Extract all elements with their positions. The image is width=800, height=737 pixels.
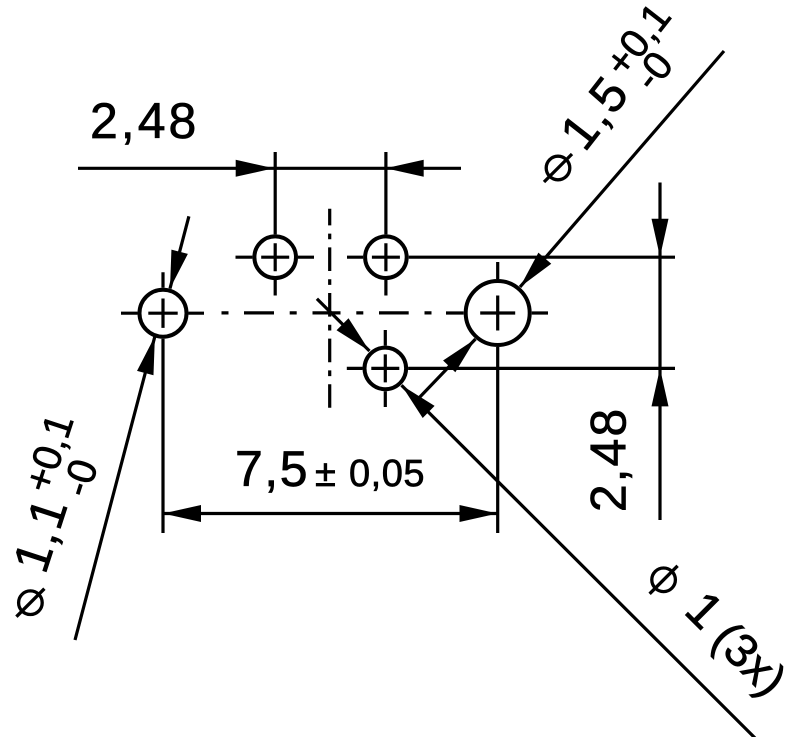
arrowhead dia 1 long	[396, 379, 435, 418]
svg-text:0,05: 0,05	[349, 453, 425, 495]
hole C3 center cross	[372, 243, 400, 271]
hole C2 circle	[254, 236, 296, 278]
svg-text:2,48: 2,48	[90, 93, 199, 149]
svg-text:±: ±	[315, 453, 336, 495]
arrowhead dia 1 short	[337, 318, 376, 357]
hole C1 ticks	[121, 272, 204, 533]
arrowhead 7,5 right	[460, 505, 498, 522]
arrowhead dia 1,5 upper	[514, 253, 552, 293]
svg-text:2,48: 2,48	[581, 407, 637, 512]
leader dia 1,5 lower	[417, 339, 476, 400]
hole C4 center cross	[371, 354, 399, 382]
leader dia 1 long	[402, 385, 756, 737]
hole C4 circle	[365, 348, 407, 390]
dia symbol of 1,5	[544, 154, 572, 182]
arrowhead 2,48 right bottom	[652, 368, 669, 406]
hole C1 circle	[140, 290, 187, 337]
leader dia 1,1 lower	[75, 336, 155, 640]
hole C3 ticks + extension line 2,48 right top	[347, 152, 675, 296]
leader dia 1,5 upper	[520, 51, 724, 287]
arrowhead 2,48 top right	[386, 160, 424, 177]
dia symbol of 1 (3x)	[650, 566, 678, 594]
hole C5 ticks	[446, 262, 548, 533]
dimension line 2,48 right	[658, 183, 661, 521]
arrowhead 7,5 left	[163, 505, 201, 522]
dimension line 2,48 top	[78, 167, 461, 170]
arrowhead 2,48 top left	[236, 160, 274, 177]
svg-text:-0: -0	[54, 454, 107, 501]
hole C3 circle	[365, 236, 407, 278]
leader dia 1,1 upper	[170, 216, 189, 288]
leader dia 1 short	[317, 299, 370, 351]
hole C4 ticks + extension line 2,48 right bottom	[347, 330, 675, 407]
dimension line 7,5	[163, 512, 498, 515]
hole C2 center cross	[261, 243, 289, 271]
arrowhead dia 1,5 lower	[443, 333, 482, 372]
hole C5 center cross	[480, 296, 515, 331]
svg-text:(3x): (3x)	[703, 611, 798, 706]
arrowhead 2,48 right top	[652, 219, 669, 257]
arrowhead dia 1,1 upper	[162, 250, 188, 291]
arrowhead dia 1,1 lower	[137, 334, 163, 375]
hole C5 circle	[466, 281, 530, 345]
dia symbol of 1,1	[16, 589, 44, 617]
hole C2 ticks	[236, 152, 315, 296]
vertical centerline dash-dot	[328, 209, 331, 408]
svg-text:1,1: 1,1	[2, 490, 79, 579]
hole C1 center cross	[148, 299, 177, 328]
svg-text:7,5: 7,5	[235, 441, 309, 497]
horizontal centerline dash-dot	[222, 311, 432, 314]
